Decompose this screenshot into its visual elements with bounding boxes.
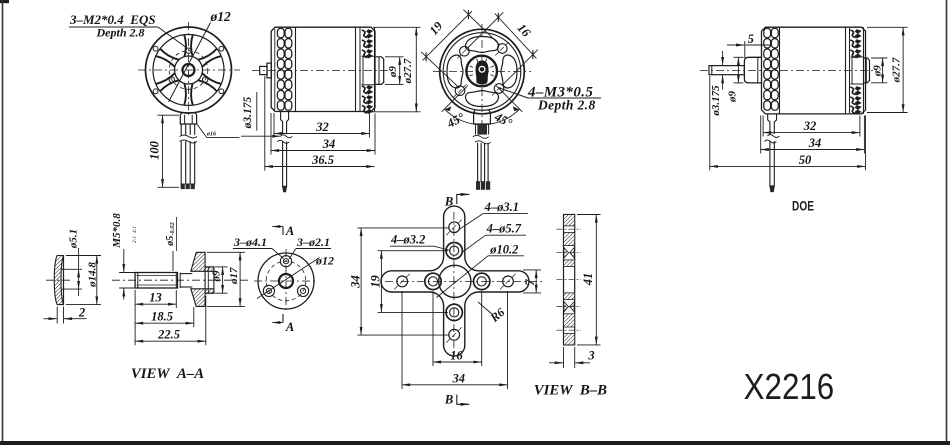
side view downward shaft [282, 142, 284, 187]
DOE body outline [762, 27, 866, 114]
dimension 13 [134, 290, 136, 345]
dimension 100 line [162, 115, 164, 187]
svg-text:100: 100 [148, 140, 162, 160]
mount vertical centerline [453, 212, 455, 352]
svg-text:2:1: 2:1 [132, 236, 138, 244]
diameter 12 leader [169, 23, 211, 103]
flange face 3 holes [280, 256, 291, 267]
DOE shaft tip [770, 186, 774, 192]
cap hole edges [61, 268, 64, 270]
rear view wires [477, 143, 479, 182]
45 degree arc [445, 109, 520, 125]
flange hatched lower [191, 289, 214, 307]
dimension 16 line with end ticks [495, 14, 537, 59]
front view: outer rotor circle [146, 27, 232, 113]
DOE shaft break [764, 135, 779, 144]
dimension 50 DOE [709, 76, 711, 170]
dimension dia 5.1 cap [64, 268, 83, 270]
threaded shaft outline [135, 273, 177, 289]
thread end lines [175, 273, 177, 289]
dimension dia 14.8 cap [66, 255, 101, 257]
mount horizontal centerline [385, 280, 545, 282]
rear view kidney cutouts [465, 37, 498, 53]
front view: six curved spokes [156, 35, 221, 105]
mount counterbored holes dia 5.7 and 3.2 [425, 273, 441, 289]
DOE rear cap knurl marks [850, 30, 856, 114]
svg-text:M5*0.8: M5*0.8 [111, 213, 123, 249]
svg-text:ø9: ø9 [727, 91, 739, 104]
DOE rear bracket [851, 56, 864, 58]
drawing frame left border [2, 0, 4, 443]
svg-text:34: 34 [322, 137, 336, 151]
svg-text:ø9: ø9 [387, 66, 399, 79]
svg-text:A: A [285, 224, 294, 238]
svg-text:32: 32 [803, 119, 817, 133]
svg-text:3–ø2.1: 3–ø2.1 [296, 235, 330, 249]
flange face center hole thick [279, 274, 293, 288]
svg-text:A: A [285, 320, 294, 334]
outer hole diagonal ticks [394, 273, 410, 289]
dimension 34 bottom [401, 291, 403, 389]
svg-text:3: 3 [587, 349, 594, 363]
DOE centerline [700, 70, 877, 72]
dimension 16 bottom [432, 291, 434, 366]
svg-text:41: 41 [581, 273, 595, 287]
dimension 19 line with end ticks [423, 11, 472, 60]
dimension dia 27.7 side view [373, 26, 421, 28]
front view: 3 hub screw holes M2 [186, 48, 191, 53]
drawing frame bottom bar [0, 441, 950, 445]
flange hatched upper [191, 252, 214, 271]
side view rear bracket [362, 55, 375, 57]
label 4-M3*0.5 leader [498, 88, 528, 99]
svg-text:4–ø3.2: 4–ø3.2 [390, 233, 425, 247]
dimension 41 [577, 214, 601, 216]
svg-text:ø5.1: ø5.1 [67, 229, 79, 249]
svg-text:ø9: ø9 [210, 270, 222, 283]
svg-text:50: 50 [799, 153, 812, 167]
DOE vent cap boundary [779, 27, 781, 114]
svg-text:ø14.8: ø14.8 [86, 262, 98, 288]
svg-text:16: 16 [450, 349, 463, 363]
svg-text:Depth 2.8: Depth 2.8 [537, 98, 596, 113]
rear view outer circle [440, 29, 525, 114]
dimension dia 27.7 DOE [867, 26, 908, 28]
dimension 34 side view [270, 113, 272, 155]
dimension 5 DOE [744, 41, 746, 58]
shaft left chamfer line [137, 273, 139, 289]
dimension M5*0.8 [123, 249, 125, 272]
dimension 36.5 side view [264, 76, 266, 171]
shaft break squiggle [277, 135, 292, 144]
dimension 34 left [358, 227, 450, 229]
dimension dia 17 flange [207, 251, 245, 253]
dimension 18.5 [193, 307, 195, 327]
svg-text:X2216: X2216 [744, 367, 835, 408]
svg-text:32: 32 [315, 120, 329, 134]
dimension dia 3.175 DOE [722, 51, 724, 65]
svg-text:VIEW A–A: VIEW A–A [131, 366, 204, 382]
front view: hub circle [175, 56, 203, 84]
front view: horizontal centerline [138, 69, 240, 71]
side view shaft tip [283, 186, 287, 192]
side view front bearing stub [260, 66, 267, 74]
prop shaft centerline [112, 279, 250, 281]
side view body outline [271, 27, 375, 111]
countersink triangles [564, 248, 574, 259]
DOE shaft boss right [864, 58, 870, 83]
rear wire tips [476, 181, 480, 190]
frame corner tick [0, 0, 9, 3]
rear view 4 mounting screw holes M3 [460, 46, 470, 56]
section plate outline [564, 215, 575, 345]
dimension 16 extension lines (diagonal) [468, 12, 504, 48]
front view: wire break squiggle [180, 135, 198, 138]
front view: rim detail circles [219, 46, 224, 51]
side view downward shaft collet [281, 112, 289, 135]
rear view hub thick circle [466, 56, 497, 87]
front view: center shaft hole [183, 64, 195, 76]
rear view inner circle [443, 33, 521, 111]
dimension dia 9 collar [734, 56, 744, 58]
side view shaft boss right [375, 57, 384, 85]
flange boss outline [205, 267, 214, 293]
svg-text:13: 13 [149, 291, 162, 305]
svg-text:DOE: DOE [792, 198, 814, 214]
svg-text:ø27.7: ø27.7 [891, 57, 903, 83]
svg-text:34: 34 [808, 136, 822, 150]
svg-text:19: 19 [368, 275, 382, 288]
rear wires break squiggle [473, 135, 491, 144]
svg-text:ø12: ø12 [210, 9, 232, 24]
front view: inner rim circle [153, 35, 224, 106]
dimension 22.5 [205, 296, 207, 345]
svg-text:ø3.175: ø3.175 [242, 96, 254, 129]
svg-text:VIEW B–B: VIEW B–B [534, 383, 607, 399]
DOE vent slots [764, 28, 771, 37]
dimension dia 9 flange boss [215, 266, 228, 268]
plain shaft section [180, 273, 192, 275]
flange face vertical centerline [285, 249, 287, 313]
svg-text:3–ø4.1: 3–ø4.1 [233, 235, 267, 249]
svg-text:ø10.2: ø10.2 [489, 242, 518, 256]
label 3-M2 leader [158, 27, 188, 49]
svg-text:18.5: 18.5 [151, 310, 173, 324]
DOE down shaft [769, 141, 771, 186]
rear view hub spline ticks [470, 59, 494, 83]
svg-text:34: 34 [452, 372, 466, 386]
label dia 12 flange leader [257, 258, 320, 299]
rear view wire stub dark block [477, 124, 487, 135]
DOE long shaft left [709, 66, 744, 75]
section plate hatch bands [564, 215, 574, 226]
flange face outer circle [258, 253, 314, 309]
cap right face [63, 256, 65, 305]
section plate hole centerlines [557, 228, 582, 230]
svg-text:4–ø3.1: 4–ø3.1 [484, 200, 519, 214]
rear view horizontal centerline [433, 71, 531, 73]
side view centerline [252, 70, 389, 72]
section A marker bottom [272, 322, 283, 324]
front view: wire end tips [181, 184, 185, 190]
DOE down shaft collet [768, 114, 777, 134]
front view: motor wires [180, 124, 182, 135]
section plate band edges [564, 225, 575, 227]
dimension 100 extension lines [158, 114, 180, 116]
side view vent cap boundary [295, 27, 297, 111]
svg-text:Depth 2.8: Depth 2.8 [96, 26, 145, 40]
dimension 2 cap [56, 307, 58, 324]
DOE rear cap boundary [845, 27, 847, 114]
45 degree angle legs [442, 86, 468, 112]
mount outer holes dia 3.1 [397, 276, 408, 287]
DOE prop collar [744, 57, 761, 83]
drawing frame right border [946, 0, 948, 443]
front view: vertical centerline [188, 22, 190, 118]
dimension 32 DOE [762, 116, 764, 137]
dimension 3 [563, 347, 565, 368]
rear view stator block [474, 110, 491, 125]
front view: bolt circle dashed [169, 51, 208, 90]
thread minor lines [137, 275, 177, 277]
svg-text:4:1: 4:1 [131, 226, 138, 234]
shaft ext line left [119, 272, 135, 274]
side view rear cap boundary [355, 27, 357, 111]
svg-text:2: 2 [78, 306, 85, 320]
dimension 19 extension lines (diagonal) [421, 52, 458, 87]
svg-text:36.5: 36.5 [311, 153, 334, 167]
mount cross outline [381, 206, 529, 356]
svg-text:ø16: ø16 [206, 132, 216, 138]
svg-text:7: 7 [523, 279, 537, 286]
svg-text:5: 5 [748, 32, 754, 46]
rear view vertical centerline [481, 24, 483, 135]
cap centerline [46, 279, 72, 281]
dimension 19 left [378, 250, 449, 252]
svg-text:34: 34 [349, 275, 363, 289]
wire bundle leader with label [197, 124, 240, 138]
svg-text:ø12: ø12 [315, 254, 334, 268]
dimension 7 right [523, 269, 541, 271]
svg-text:ø9: ø9 [872, 65, 884, 78]
svg-text:ø17: ø17 [228, 267, 240, 285]
svg-text:22.5: 22.5 [157, 328, 180, 342]
mount center hole dia 10.2 [439, 265, 471, 297]
cap outline with hatch [54, 256, 63, 305]
dimension 34 DOE [760, 116, 762, 154]
side view vent slots [277, 28, 284, 37]
flange face bolt circle dashed [266, 261, 306, 301]
section A marker top [272, 226, 283, 228]
flange face horizontal centerline [254, 280, 318, 282]
front view: stator block below [180, 113, 196, 124]
svg-text:B: B [444, 393, 453, 407]
dimension 32 side view [273, 113, 275, 138]
dimension dia 9 boss side view [385, 56, 404, 58]
rear view shaft end silhouette [476, 61, 488, 84]
svg-text:ø3.175: ø3.175 [710, 85, 722, 117]
svg-text:4–ø5.7: 4–ø5.7 [486, 222, 522, 236]
dimension dia 9 DOE right [871, 57, 887, 59]
svg-text:ø27.7: ø27.7 [402, 58, 414, 84]
side view rear cap knurl marks [362, 30, 368, 113]
